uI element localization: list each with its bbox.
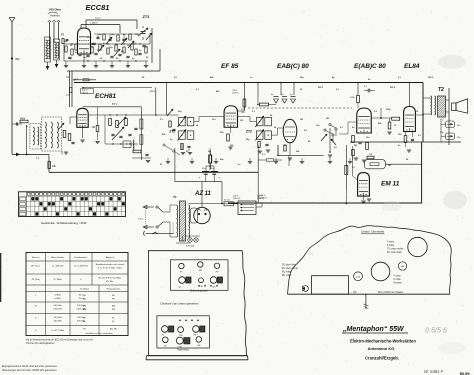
resistor cathode EF85	[209, 150, 212, 169]
svg-text:EL84: EL84	[404, 63, 420, 70]
resistor	[145, 47, 147, 53]
ground em	[361, 196, 371, 203]
tube ECH81	[77, 108, 88, 127]
junction	[109, 114, 110, 115]
coil osc	[132, 140, 135, 150]
resistor screen	[140, 135, 143, 145]
ground stub	[190, 158, 194, 164]
svg-text:FU oben rechts: FU oben rechts	[282, 267, 299, 270]
svg-text:1M: 1M	[92, 126, 95, 129]
wire coupling ZT3	[238, 117, 284, 136]
wire right edge lower	[421, 142, 423, 204]
svg-text:250 V: 250 V	[390, 87, 396, 89]
wire speaker line	[448, 88, 450, 145]
wire cluster bottom	[64, 60, 148, 62]
wire top 2	[81, 23, 120, 33]
wires heater	[189, 208, 191, 223]
resistor	[125, 119, 128, 126]
resistor	[103, 34, 105, 40]
svg-text:EM 11: EM 11	[381, 181, 400, 188]
svg-text:EAB(C) 80: EAB(C) 80	[277, 63, 309, 70]
wire anode EL84	[409, 82, 411, 107]
label WU BU	[378, 291, 404, 294]
svg-text:Si 0,8: Si 0,8	[224, 200, 230, 202]
voltage selector	[238, 201, 256, 215]
wires caps	[206, 165, 214, 172]
capacitor	[108, 39, 111, 40]
capacitor electrolytic 1	[271, 94, 279, 103]
resistor 560k	[387, 118, 391, 134]
junction	[119, 60, 120, 61]
svg-text:Bl.59: Bl.59	[460, 371, 470, 375]
wire dropper2	[166, 82, 168, 115]
knob PK	[193, 326, 205, 337]
connector LS	[446, 133, 462, 140]
junction	[112, 143, 113, 144]
capacitor	[110, 56, 113, 57]
node 38a	[11, 57, 20, 61]
svg-text:500 kHz: 500 kHz	[54, 305, 62, 307]
title line3	[368, 346, 395, 351]
ground	[110, 61, 114, 68]
cathode RC EL84	[404, 136, 414, 153]
resistor	[99, 44, 101, 50]
svg-text:Bereich: Bereich	[32, 256, 40, 259]
svg-text:Chassis von unten gesehen: Chassis von unten gesehen	[160, 301, 198, 305]
svg-text:(TU): (TU)	[356, 277, 360, 279]
svg-text:(18 V): (18 V)	[233, 93, 239, 95]
svg-text:Spannungen sind mit Instr. 200: Spannungen sind mit Instr. 20000 Ω/V gem…	[2, 369, 57, 372]
label 30k	[241, 109, 245, 114]
knob GK	[196, 337, 202, 347]
svg-text:EF 85: EF 85	[221, 63, 239, 70]
coil L1	[45, 37, 51, 62]
svg-text:1M: 1M	[115, 44, 118, 46]
handwritten 05/56	[425, 326, 447, 335]
svg-text:M unten: M unten	[394, 282, 403, 285]
wire main HT bus	[74, 82, 423, 84]
resistor	[115, 45, 117, 51]
dipole feeders	[50, 22, 59, 47]
svg-text:ca. 87,7 MHz: ca. 87,7 MHz	[51, 330, 64, 332]
panel Tastenleiste box	[157, 316, 210, 348]
label 200V	[233, 196, 240, 201]
resistor 346	[345, 166, 348, 175]
resistor anode EF85	[243, 99, 246, 107]
coil box L3	[30, 123, 41, 149]
junction	[87, 60, 88, 61]
label ECH81	[95, 93, 116, 100]
tube EAB(C)80	[283, 119, 297, 143]
svg-text:1,4B(V): 1,4B(V)	[90, 23, 98, 25]
switch table frame	[19, 192, 126, 217]
panel dots 2	[179, 320, 199, 322]
wire coupling	[88, 114, 224, 121]
ground stub	[300, 158, 304, 164]
resistor	[107, 48, 109, 54]
svg-text:K mitte: K mitte	[394, 278, 402, 281]
switch band	[163, 144, 180, 155]
wire	[357, 103, 359, 109]
capacitor	[92, 43, 95, 44]
caption chassis unten	[160, 301, 198, 305]
label EF85	[221, 63, 239, 70]
svg-text:BU, EU: BU, EU	[110, 329, 118, 331]
tube E(AB)C80	[357, 108, 372, 133]
svg-text:Z mitte: Z mitte	[387, 244, 395, 247]
svg-text:0 5/5 6: 0 5/5 6	[425, 326, 447, 335]
svg-text:+: +	[219, 176, 221, 180]
svg-text:30k: 30k	[241, 109, 244, 111]
IF transformer ZT2 lower	[178, 130, 194, 141]
svg-text:6,3V 4A: 6,3V 4A	[186, 245, 194, 248]
svg-text:ZU oben links: ZU oben links	[282, 265, 297, 267]
knob GL	[163, 337, 169, 347]
wire anode top	[86, 18, 137, 29]
svg-text:Tastenleiste: Tastenleiste	[177, 348, 190, 351]
svg-text:AZ 11: AZ 11	[194, 191, 212, 197]
wire 1M	[95, 107, 99, 144]
ground	[126, 61, 130, 68]
corner note	[2, 365, 58, 372]
svg-text:E(AB)C 80: E(AB)C 80	[354, 63, 386, 70]
junction	[26, 153, 40, 159]
svg-text:Antemann KG: Antemann KG	[368, 346, 395, 351]
IF transformer ZT3	[255, 116, 271, 141]
labels connectors	[440, 120, 444, 135]
svg-text:ZT2: ZT2	[168, 129, 175, 133]
resistor anode	[140, 119, 143, 129]
svg-text:EM: EM	[112, 306, 115, 308]
resistor 1M em	[367, 154, 374, 159]
junction	[107, 43, 108, 44]
svg-text:200 kHz: 200 kHz	[54, 317, 62, 319]
resistor	[131, 44, 133, 50]
wire af2	[277, 145, 289, 166]
wires connectors	[441, 121, 446, 142]
label EM11	[381, 181, 400, 188]
trimmer	[121, 38, 127, 45]
socket big	[408, 237, 427, 256]
capacitor	[128, 134, 131, 135]
caption switch table	[41, 221, 87, 225]
resistor	[71, 49, 73, 55]
ground	[62, 151, 68, 154]
svg-text:AM: AM	[83, 308, 86, 311]
ground	[144, 61, 148, 68]
resistor	[352, 150, 355, 156]
ground cathode	[80, 127, 84, 142]
svg-text:ZU Min.: ZU Min.	[106, 281, 114, 283]
resistor filter	[257, 97, 276, 106]
potentiometer volume	[328, 128, 336, 157]
svg-text:(90 V): (90 V)	[82, 92, 88, 94]
connector NU	[302, 286, 308, 292]
svg-text:QK: QK	[212, 286, 216, 288]
svg-text:5BV: 5BV	[241, 112, 245, 114]
svg-text:38a: 38a	[15, 57, 20, 61]
svg-text:Antenne: Antenne	[50, 14, 60, 18]
capacitor	[68, 57, 71, 58]
capacitor input	[12, 122, 27, 126]
panel small mark top	[144, 222, 174, 236]
mains switch	[156, 206, 170, 228]
ground stub	[274, 158, 278, 164]
wire tuner down	[66, 71, 79, 107]
rc EABC	[352, 136, 369, 163]
alignment table frame	[26, 253, 128, 336]
wire dropper7	[357, 82, 359, 95]
capacitor electrolytic 3	[290, 94, 296, 103]
trimmer osc	[117, 117, 126, 126]
svg-text:QM: QM	[83, 306, 87, 308]
resistor 40k	[48, 162, 57, 169]
svg-text:Cranzahl/Erzgeb.: Cranzahl/Erzgeb.	[365, 356, 399, 361]
wire screen EL84	[415, 114, 423, 116]
svg-text:Gedrückte Schalterstellung U: Gedrückte Schalterstellung UKW	[41, 221, 87, 225]
svg-text:1M: 1M	[300, 119, 303, 121]
capacitor	[134, 128, 137, 129]
svg-text:VU DU WS VU UU Max.: VU DU WS VU UU Max.	[98, 278, 122, 280]
svg-text:Bandbreitenregler auf schmal: Bandbreitenregler auf schmal	[96, 263, 125, 266]
antenna	[9, 18, 15, 155]
wire grid	[70, 117, 77, 124]
svg-text:ZT1: ZT1	[142, 15, 150, 19]
title line4	[365, 356, 399, 361]
socket TU	[354, 272, 363, 281]
scan edge artifact	[0, 253, 1, 302]
resistor af	[258, 159, 282, 161]
junction	[123, 43, 124, 44]
tube EF85	[224, 106, 237, 128]
connector TA	[446, 121, 462, 128]
svg-text:ECH81: ECH81	[95, 93, 116, 100]
wire to selector	[234, 203, 239, 205]
capacitor	[78, 54, 81, 55]
svg-text:300 kHz: 300 kHz	[54, 321, 62, 323]
speaker LS	[452, 99, 468, 113]
resistor	[129, 34, 131, 40]
label mains	[138, 219, 145, 221]
knob QK	[210, 277, 222, 289]
ground stub	[214, 158, 218, 164]
svg-text:87 V: 87 V	[112, 102, 118, 106]
svg-text:V oben: V oben	[394, 276, 402, 278]
svg-text:220V~: 220V~	[138, 219, 145, 221]
resistor filter ps	[209, 148, 212, 170]
panel base strip	[146, 356, 248, 360]
wire selector out	[256, 204, 262, 208]
capacitor electrolytic ps1	[199, 168, 210, 182]
caption panel1	[190, 290, 208, 293]
ground	[64, 61, 68, 68]
wire ground bus	[49, 171, 258, 173]
label 220V	[257, 196, 264, 201]
svg-text:FM: FM	[112, 309, 115, 311]
svg-text:Bedienungsplatte: Bedienungsplatte	[190, 290, 208, 293]
trimmer	[98, 45, 104, 52]
capacitor electrolytic ps2	[211, 168, 221, 182]
svg-text:QK: QK	[83, 295, 87, 297]
wire right drop	[140, 107, 142, 160]
svg-text:GK: GK	[197, 345, 201, 347]
note W6481	[424, 369, 444, 374]
knob PL	[162, 326, 174, 337]
tube AZ11	[194, 207, 210, 223]
panel dots	[198, 285, 218, 287]
junction	[139, 43, 140, 44]
svg-text:240 Ohm: 240 Ohm	[49, 8, 61, 12]
winding T1 secondary	[189, 205, 190, 238]
heater winding 6,3V	[185, 236, 200, 248]
resistor	[123, 47, 125, 53]
dipole hooks	[48, 21, 60, 23]
rc bottom	[133, 150, 150, 163]
capacitor electrolytic 2	[281, 94, 287, 103]
svg-text:Oszillator: Oszillator	[80, 287, 89, 290]
wire	[149, 33, 151, 44]
wire right edge upper	[422, 83, 424, 143]
svg-text:NU mitte: NU mitte	[282, 271, 292, 274]
resistor 320k	[350, 96, 359, 103]
wire AVC dashed	[248, 107, 352, 109]
svg-text:Chass. Oberseite: Chass. Oberseite	[361, 230, 385, 234]
wire antenna bus	[12, 153, 49, 157]
svg-text:ca. 468 kHz: ca. 468 kHz	[52, 266, 64, 268]
box EM11 grid	[364, 160, 385, 169]
box osc	[123, 141, 131, 148]
svg-text:PM: PM	[178, 347, 181, 349]
knob FL	[179, 263, 184, 273]
wire dropper3	[244, 82, 246, 110]
svg-text:302 V: 302 V	[428, 77, 434, 79]
trimmer	[58, 123, 64, 130]
svg-text:Gefäßkreise nicht verändern: Gefäßkreise nicht verändern	[85, 332, 113, 335]
knob FM	[198, 262, 203, 272]
label EL84	[404, 63, 420, 70]
svg-text:+: +	[199, 176, 201, 180]
wire em feed	[385, 163, 421, 165]
resistor	[116, 121, 119, 128]
wire anode EF85	[238, 107, 245, 111]
svg-text:T2: T2	[438, 87, 444, 93]
knob CM2	[178, 327, 184, 338]
resistor	[109, 119, 112, 126]
label ZT2	[168, 129, 175, 133]
svg-text:1500 kHz: 1500 kHz	[53, 309, 62, 311]
winding T2	[431, 96, 436, 115]
wire screen bus	[82, 87, 152, 89]
caption chassis oben	[361, 230, 385, 234]
capacitor	[86, 55, 89, 56]
junction	[91, 43, 92, 44]
resistor 860k	[20, 118, 28, 123]
svg-text:1M: 1M	[240, 120, 243, 122]
svg-text:FM: FM	[199, 270, 202, 272]
rc ZT3	[258, 142, 270, 154]
junction	[116, 114, 117, 115]
svg-text:ZU unten links: ZU unten links	[387, 251, 403, 254]
resistor feed	[66, 88, 72, 96]
svg-text:1M: 1M	[369, 154, 372, 156]
tuning capacitor ZT1	[138, 26, 148, 40]
wire	[63, 44, 65, 61]
input parts	[62, 39, 69, 44]
coil L2	[54, 39, 60, 60]
socket EM11	[398, 262, 406, 270]
value labels tuner	[64, 34, 149, 60]
svg-text:„Mentaphon“ 55W: „Mentaphon“ 55W	[342, 326, 405, 333]
transformer block	[312, 276, 349, 295]
svg-text:Drehkondens.: Drehkondens.	[74, 256, 88, 259]
wire dropper4	[257, 82, 259, 97]
wire avc tap	[380, 108, 382, 118]
svg-text:DU unten: DU unten	[282, 274, 292, 277]
svg-text:ZT3: ZT3	[245, 129, 252, 133]
svg-text:300p: 300p	[386, 109, 391, 111]
svg-text:ZF-Verst.: ZF-Verst.	[31, 265, 40, 268]
svg-text:Z. K. R. W. F. Max. 5 Min.: Z. K. R. W. F. Max. 5 Min.	[98, 268, 123, 270]
note Bl59	[460, 371, 470, 375]
coil box L4	[42, 117, 62, 151]
wire T1 bottom	[176, 236, 190, 243]
svg-text:Trimmer für nachzugleichen: Trimmer für nachzugleichen	[26, 342, 55, 345]
label 230V	[260, 195, 267, 200]
core T2	[438, 96, 446, 117]
label 137V	[81, 89, 94, 95]
wire cluster mid	[94, 34, 140, 40]
wire input down	[26, 126, 28, 154]
wire hv bus	[175, 181, 222, 183]
capacitor	[138, 53, 141, 54]
wires mains	[169, 205, 171, 237]
wire to bus	[346, 190, 348, 204]
capacitor 4,7	[364, 86, 375, 92]
svg-text:4 MHz: 4 MHz	[55, 295, 61, 297]
label F1	[61, 33, 65, 37]
wire 87V	[83, 102, 142, 107]
svg-text:WU und BU im Chassis: WU und BU im Chassis	[378, 291, 404, 294]
mains lead chassis	[364, 294, 369, 309]
resistor	[91, 47, 93, 53]
alignment table text	[31, 256, 125, 335]
wire output bus	[350, 141, 461, 143]
capacitor	[71, 142, 74, 143]
wire tuner bottom	[67, 49, 160, 71]
IF transformer ZT2 upper	[178, 116, 194, 127]
caption panel2	[177, 348, 190, 351]
rc ZT2	[181, 144, 192, 155]
tube EL84	[404, 107, 416, 132]
capacitor	[122, 39, 125, 40]
wire osc frame	[105, 115, 138, 144]
svg-text:100p: 100p	[87, 37, 92, 39]
text block right lower	[394, 276, 403, 285]
svg-text:ECC81: ECC81	[86, 3, 110, 12]
wire left drop	[174, 148, 176, 182]
panel outer box	[148, 251, 246, 356]
ground	[94, 61, 98, 68]
wire anode supply	[201, 182, 203, 208]
wires el84	[406, 132, 413, 148]
wire down	[48, 154, 50, 172]
trimmer osc big	[112, 127, 124, 140]
capacitor	[126, 56, 129, 57]
title line2	[350, 338, 416, 343]
svg-text:Mess-Sender: Mess-Sender	[51, 256, 64, 259]
wire cathode	[83, 54, 85, 61]
label T2	[438, 87, 444, 93]
